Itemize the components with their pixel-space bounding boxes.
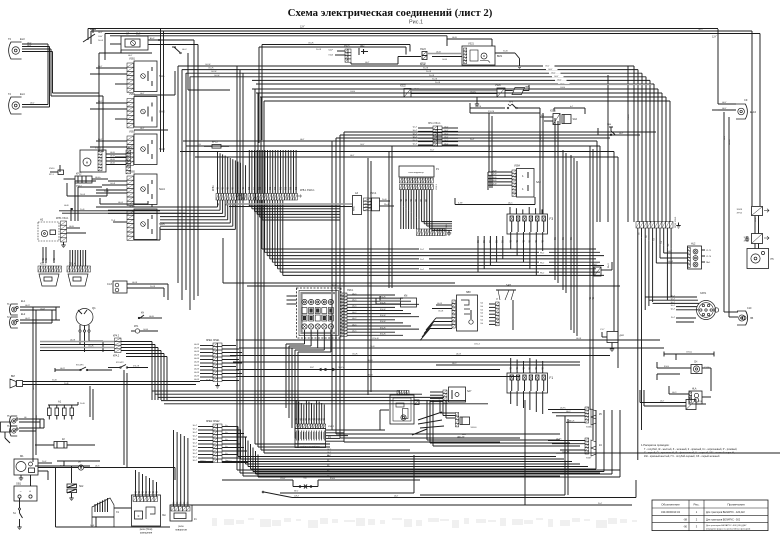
svg-text:Чб-Ж: Чб-Ж <box>194 358 199 360</box>
relay VS21 BM1 <box>462 43 503 66</box>
svg-text:Чб-К: Чб-К <box>95 466 100 468</box>
switch KH1 <box>131 326 158 333</box>
wire XS8.1 leads <box>347 293 419 335</box>
wire diag line <box>262 480 636 498</box>
svg-text:Чб-Ж: Чб-Ж <box>668 261 673 263</box>
svg-text:Чб-В: Чб-В <box>110 152 115 154</box>
wire below EL10 a <box>724 112 726 312</box>
svg-text:ЗРШ1 ХРШ1: ЗРШ1 ХРШ1 <box>206 340 220 342</box>
switch block SA5 <box>127 207 165 241</box>
svg-text:-08: -08 <box>683 517 687 521</box>
relay KP12 <box>64 174 109 189</box>
svg-text:ГЧб-З: ГЧб-З <box>628 114 630 120</box>
wire mid spans <box>230 338 664 362</box>
wire right verticals A <box>555 118 577 336</box>
svg-text:Чб-Ж: Чб-Ж <box>194 362 199 364</box>
svg-text:Чб-Ф: Чб-Ф <box>118 201 123 204</box>
svg-text:Чб: Чб <box>327 460 329 462</box>
wire F1 drops <box>511 391 543 414</box>
svg-text:-90: -90 <box>683 525 687 529</box>
svg-text:SК2: SК2 <box>79 485 84 488</box>
wire SA2 left leads <box>90 101 168 130</box>
wire EL2 leads <box>20 318 60 323</box>
svg-text:ХS5А: ХS5А <box>586 426 592 429</box>
svg-text:Чб-Г: Чб-Г <box>722 108 727 110</box>
svg-text:РИБ1: РИБ1 <box>354 205 356 211</box>
svg-text:Для тракторов БЕЛАРУС - 420,42: Для тракторов БЕЛАРУС - 420,422 <box>706 511 745 514</box>
connector XS29 <box>744 234 769 244</box>
wire below EL10 b <box>729 117 731 317</box>
wire SP3 drops <box>489 108 543 214</box>
svg-text:Зб-Ф: Зб-Ф <box>370 345 375 348</box>
svg-text:Чб-Ж: Чб-Ж <box>194 376 199 378</box>
lamp block HL2 <box>688 243 702 270</box>
svg-text:ВМ1: ВМ1 <box>497 55 503 58</box>
wire SB8 left <box>420 303 452 341</box>
connector XS16.1 row <box>248 190 315 200</box>
svg-text:VSВ5: VSВ5 <box>129 172 136 174</box>
wire EL1 leads <box>20 305 60 311</box>
wire XS10.2 bottom <box>198 461 248 463</box>
svg-text:Чб-В: Чб-В <box>436 52 441 54</box>
svg-text:Об-Ж: Об-Ж <box>88 346 93 348</box>
svg-text:VSВ3: VSВ3 <box>129 132 136 134</box>
wire mid y44 pair <box>259 43 410 144</box>
svg-text:КЖ - красный-желтый, ГЧ - голу: КЖ - красный-желтый, ГЧ - голубой-черный… <box>644 455 720 458</box>
wire bus B <box>178 64 654 86</box>
wire EL3 bundle <box>22 43 103 108</box>
svg-text:комбинация приборов: комбинация приборов <box>300 446 319 448</box>
wire tacho labels <box>401 198 428 202</box>
wire P2 cascade <box>427 399 580 446</box>
component KM <box>376 296 417 308</box>
lamp cluster K5 <box>585 407 602 429</box>
svg-text:Жб-Ж: Жб-Ж <box>380 327 386 329</box>
connector XS23 <box>420 49 432 66</box>
switch SB4 <box>598 124 640 136</box>
wire XS10.1 right <box>222 346 242 381</box>
lamp EL10 <box>736 98 757 119</box>
svg-text:Об-Ж: Об-Ж <box>214 75 219 77</box>
horn H2 <box>38 219 59 242</box>
connector XS10.2 <box>206 421 222 463</box>
wire top bus 2 <box>91 28 752 31</box>
wire M1 leads <box>38 461 78 468</box>
lamp EL3 <box>8 37 25 59</box>
wire F3 tops <box>510 207 542 214</box>
svg-text:SШ: SШ <box>303 478 306 480</box>
connector KRB1 row <box>213 185 247 200</box>
svg-text:тахоспидометр: тахоспидометр <box>408 172 424 174</box>
svg-text:КРБ.1 ХS16.1: КРБ.1 ХS16.1 <box>300 190 315 192</box>
svg-text:Обозначение: Обозначение <box>661 502 680 506</box>
svg-text:КР12: КР12 <box>76 174 82 176</box>
svg-text:ЕРL3: ЕРL3 <box>212 142 218 144</box>
svg-text:Чб-Ж: Чб-Ж <box>70 340 75 342</box>
wire VS21 left <box>432 52 462 62</box>
svg-text:Чб-С: Чб-С <box>352 293 357 295</box>
svg-text:ХS21: ХS21 <box>344 46 350 48</box>
svg-text:VS26: VS26 <box>495 85 501 87</box>
svg-text:Об-Ж: Об-Ж <box>352 354 357 356</box>
wire strip2 staircase <box>223 200 620 286</box>
svg-text:Зб-Ф: Зб-Ф <box>80 208 85 211</box>
svg-text:Жб-Ж: Жб-Ж <box>380 309 386 311</box>
svg-text:Для тракторов БЕЛАРУС - 502: Для тракторов БЕЛАРУС - 502 <box>706 518 741 521</box>
svg-text:СЧб-С: СЧб-С <box>226 461 233 463</box>
wire EL56 risers <box>36 419 44 431</box>
wire big loop bottoms <box>332 430 560 442</box>
relay block VS3 <box>390 391 444 429</box>
svg-text:Чб-В: Чб-В <box>149 316 154 318</box>
bolt V6 <box>78 461 175 481</box>
svg-text:РЬ-З: РЬ-З <box>608 263 610 268</box>
wire strip risers 2 <box>249 150 298 194</box>
svg-text:РЬ-Ф: РЬ-Ф <box>384 203 389 206</box>
svg-text:Зб-Ж: Зб-Ж <box>426 71 431 73</box>
connector KR4.2 <box>113 336 121 358</box>
svg-text:ЗРШ2 ХРШ2: ЗРШ2 ХРШ2 <box>206 421 220 423</box>
resistor bank A1 <box>48 400 86 420</box>
svg-text:Чб-Кч: Чб-Кч <box>95 177 101 179</box>
svg-text:Чб-С: Чб-С <box>352 318 357 320</box>
svg-text:Г - голубой, Ж - желтый, З - з: Г - голубой, Ж - желтый, З - зеленый, К … <box>644 448 737 451</box>
wire VS21 right switch <box>495 51 522 69</box>
wire battery minus <box>13 498 23 530</box>
svg-text:Чб-Кч: Чб-Кч <box>414 89 420 91</box>
svg-text:поворотов: поворотов <box>175 529 187 532</box>
svg-text:С9: С9 <box>744 98 748 102</box>
svg-text:Чб-П: Чб-П <box>25 318 30 320</box>
switch SP1 <box>55 365 112 373</box>
wire long y157 <box>195 155 618 368</box>
wire KP12 link <box>60 165 107 196</box>
wire turn relay risers <box>173 430 189 507</box>
svg-text:Чб-Г: Чб-Г <box>724 135 726 140</box>
svg-text:ХS10: ХS10 <box>49 168 55 170</box>
wire H2 feeders <box>64 181 102 221</box>
wire right drop 1 <box>751 31 753 206</box>
svg-text:SВ8: SВ8 <box>466 291 471 294</box>
wire EL9 left <box>99 44 152 57</box>
plug XP1 <box>92 498 120 527</box>
wire bundle y391 <box>152 391 488 404</box>
wire KSh bottom drops <box>286 330 331 448</box>
svg-text:Ж-Р: Ж-Р <box>310 367 315 369</box>
wire right drop 2 <box>759 34 761 207</box>
svg-text:А5-Р: А5-Р <box>150 37 155 40</box>
lamp EL4 <box>8 92 25 114</box>
connector KRL1 XS4.1 <box>56 218 69 248</box>
wire XS6.1 drops <box>638 228 671 249</box>
connector XS12 col <box>126 146 133 174</box>
svg-text:М1: М1 <box>20 454 24 458</box>
svg-text:Чб: Чб <box>327 470 329 472</box>
svg-text:Чб-С: Чб-С <box>352 312 357 314</box>
svg-text:Чб-С: Чб-С <box>352 300 357 302</box>
svg-text:Об-Ч: Об-Ч <box>350 91 356 93</box>
svg-text:ХS17: ХS17 <box>592 264 598 266</box>
svg-text:ХS1.3: ХS1.3 <box>40 264 47 266</box>
connector XS28 <box>737 207 769 216</box>
wire M2 to right <box>106 152 126 165</box>
svg-text:Чб-Ж: Чб-Ж <box>132 282 137 284</box>
svg-text:ЛБ: ЛБ <box>750 317 754 320</box>
svg-text:Чб-С: Чб-С <box>452 363 457 365</box>
svg-text:Чб-Ф: Чб-Ф <box>492 183 497 186</box>
svg-text:12-Г: 12-Г <box>712 36 717 39</box>
wire to EL10 <box>712 29 736 110</box>
connector XS22 <box>400 86 497 98</box>
connector XS6.1 row <box>636 216 681 228</box>
fuse XS10 <box>49 168 64 176</box>
wire F1 tops <box>511 358 545 373</box>
lamp block HL4 <box>669 386 711 404</box>
wire nested tops <box>243 145 380 147</box>
svg-text:НL2: НL2 <box>691 243 696 246</box>
svg-text:ХS3.6: ХS3.6 <box>471 427 478 429</box>
svg-text:Чб-Рч: Чб-Рч <box>556 439 562 441</box>
svg-text:КР4.2: КР4.2 <box>113 336 120 338</box>
svg-text:Чб-Р: Чб-Р <box>329 50 334 52</box>
connector XS1.3 row A <box>38 264 61 273</box>
svg-text:Зб-В: Зб-В <box>368 360 373 362</box>
svg-text:К: К <box>138 514 140 518</box>
svg-text:СЛб-Г: СЛб-Г <box>280 478 287 480</box>
svg-text:Чб-В: Чб-В <box>452 37 457 39</box>
connector C1.8 <box>107 281 168 300</box>
lamp EL5 <box>7 416 44 426</box>
svg-text:Чб-Г: Чб-Г <box>722 102 727 104</box>
component DM2 <box>600 329 625 352</box>
svg-text:ХР23: ХР23 <box>420 64 426 66</box>
component SK2 <box>35 461 100 501</box>
svg-text:КРБ1: КРБ1 <box>213 185 215 191</box>
buzzer CH <box>657 362 711 392</box>
wire strip risers 1 <box>217 152 245 194</box>
lamp cluster K4 <box>585 438 602 460</box>
wire ground long <box>38 468 170 528</box>
switch block SA2 <box>127 94 165 128</box>
svg-text:Чб-Ф: Чб-Ф <box>492 169 497 172</box>
svg-text:SВ2: SВ2 <box>360 46 365 48</box>
svg-text:Чб-Г: Чб-Г <box>98 32 103 34</box>
wire K4 leads <box>548 439 585 454</box>
svg-text:Чб-В: Чб-В <box>110 156 115 158</box>
fuse bank F3 <box>507 214 553 234</box>
connector XS3.3 row <box>417 224 452 236</box>
wire big loop tops <box>332 132 656 141</box>
svg-text:2Л-СБ: 2Л-СБ <box>488 111 495 113</box>
svg-text:ХS22: ХS22 <box>400 86 406 88</box>
svg-text:GВ1: GВ1 <box>16 483 22 486</box>
wire SSh line <box>222 478 420 489</box>
connector P1 pins <box>400 178 439 190</box>
wire bottom bundle <box>238 410 620 477</box>
wire strip drops 1 staircase <box>108 200 236 229</box>
svg-text:Чб-Ж: Чб-Ж <box>729 140 731 145</box>
svg-text:Чб-В: Чб-В <box>110 163 115 165</box>
svg-text:Чб-Ж: Чб-Ж <box>576 338 581 340</box>
wire KR42 drops <box>152 342 167 401</box>
wire long y151 <box>180 150 614 332</box>
wire SA3 left leads <box>90 139 127 157</box>
svg-text:4-ЗФ: 4-ЗФ <box>458 202 463 205</box>
wire big loop left risers <box>332 132 344 442</box>
switch block SA1 <box>127 59 165 93</box>
box K3 <box>1 422 11 443</box>
svg-text:SА6: SА6 <box>573 118 578 121</box>
svg-text:Чб-Г: Чб-Г <box>30 103 35 105</box>
svg-text:Сч: Сч <box>225 432 227 434</box>
connector XS6 SA7 <box>430 387 472 404</box>
svg-text:КШ: КШ <box>333 284 338 288</box>
wire SA5 top lines <box>59 208 186 213</box>
svg-text:Чб: Чб <box>327 475 329 477</box>
wire Q1 drops <box>80 332 103 352</box>
svg-text:СН: СН <box>694 362 698 364</box>
svg-text:Чб-Рч: Чб-Рч <box>560 408 566 410</box>
wire EL4 pair <box>22 103 50 108</box>
wire SA9 left leads <box>488 169 512 190</box>
svg-text:F1: F1 <box>549 376 553 380</box>
svg-text:С1.8: С1.8 <box>107 284 113 286</box>
wire right verticals B <box>590 146 595 440</box>
svg-text:Чб-В: Чб-В <box>110 159 115 161</box>
svg-text:СЛб-З: СЛб-З <box>474 344 481 346</box>
svg-text:ХS5Т: ХS5Т <box>586 458 592 460</box>
svg-text:Зб-Ж: Зб-Ж <box>432 78 437 80</box>
svg-text:Q1: Q1 <box>92 306 96 310</box>
svg-text:12-Г: 12-Г <box>300 26 305 29</box>
svg-text:КЛ-SР2: КЛ-SР2 <box>116 362 124 364</box>
svg-text:Чб-В: Чб-В <box>69 226 74 228</box>
wire light relay risers <box>135 470 158 497</box>
wire left verticals <box>33 307 127 468</box>
svg-text:СЛб-Ч: СЛб-Ч <box>686 352 693 354</box>
svg-text:Чб-Ж: Чб-Ж <box>194 369 199 371</box>
svg-text:Чб-Ж: Чб-Ж <box>194 379 199 381</box>
svg-text:Чб-С: Чб-С <box>182 49 187 51</box>
svg-text:Зб-Ф: Зб-Ф <box>80 193 85 196</box>
svg-text:Зб-Ф: Зб-Ф <box>382 198 387 201</box>
wire SA9 bottom <box>455 197 535 205</box>
svg-text:Зб-Ж: Зб-Ж <box>150 286 155 288</box>
switch block SA3 <box>127 132 165 166</box>
wire long pair y146 <box>186 144 600 222</box>
block P1 tacho <box>399 166 440 177</box>
switch block SB8 <box>452 291 478 331</box>
connector XA2 <box>640 390 706 410</box>
svg-text:ХS28: ХS28 <box>737 209 743 211</box>
wire XS10.2 left <box>193 425 213 462</box>
lamp EL2 <box>7 313 26 328</box>
svg-text:ЧАб-Ж: ЧАб-Ж <box>568 420 574 423</box>
svg-text:КМ: КМ <box>404 296 407 298</box>
wire gray trunk <box>226 200 352 207</box>
wire HL2 right labels <box>702 250 712 264</box>
socket XAP1 <box>697 292 719 320</box>
svg-text:Для тракторов БЕЛАРУС -502,(СЕ: Для тракторов БЕЛАРУС -502,(СЕ),ДЕУ <box>706 524 747 527</box>
svg-text:Жб-Ж: Жб-Ж <box>380 321 386 323</box>
wire EL riser <box>52 307 60 323</box>
svg-text:Об-Ф: Об-Ф <box>110 182 115 185</box>
block turn relay <box>170 505 197 532</box>
svg-text:Жб-Ч: Жб-Ч <box>330 478 336 480</box>
svg-text:Чб-С: Чб-С <box>352 306 357 308</box>
svg-text:1б-В: 1б-В <box>64 383 69 385</box>
svg-text:Зб-В: Зб-В <box>52 380 57 382</box>
svg-text:А1: А1 <box>58 400 62 404</box>
wire top bus 4 <box>110 35 447 37</box>
svg-text:Чб-С: Чб-С <box>508 203 513 205</box>
svg-text:С1.76: С1.76 <box>706 256 711 258</box>
svg-text:Рис.1: Рис.1 <box>409 20 423 26</box>
svg-text:(передние фары на кронштейнах: (передние фары на кронштейнах фонарей) <box>706 527 750 530</box>
wire XPL1 right <box>442 127 458 146</box>
scan ghost band <box>212 518 637 528</box>
svg-text:Чб: Чб <box>327 455 329 457</box>
svg-text:VSВ4: VSВ4 <box>514 166 521 168</box>
svg-text:СЧб-ЗФ: СЧб-ЗФ <box>562 450 570 453</box>
switch SAN <box>481 284 516 330</box>
svg-text:EL4: EL4 <box>20 92 25 96</box>
svg-text:Об-Ч: Об-Ч <box>560 87 566 89</box>
svg-text:М: М <box>483 55 485 58</box>
connector XS10.1 <box>206 340 222 388</box>
connector XS1.4 row B <box>67 264 90 273</box>
wire K5 leads <box>548 408 585 423</box>
svg-text:ХРL1 ХS1.1: ХРL1 ХS1.1 <box>428 123 441 125</box>
wire mid risers x368 <box>368 158 371 395</box>
svg-text:Зб-Ф: Зб-Ф <box>104 190 109 193</box>
wire battery plus <box>30 475 32 486</box>
svg-text:Чб-Г: Чб-Г <box>698 28 704 31</box>
table of designations <box>652 500 768 531</box>
svg-text:SАН: SАН <box>506 284 511 287</box>
relay XS3.6 <box>440 400 477 439</box>
svg-text:КР-1: КР-1 <box>49 174 54 176</box>
svg-text:EL3: EL3 <box>20 37 25 41</box>
svg-text:Об-Ж: Об-Ж <box>308 43 313 45</box>
svg-text:SА4: SА4 <box>159 187 165 191</box>
svg-text:Чб-Ф: Чб-Ф <box>492 173 497 176</box>
svg-text:+: + <box>29 490 31 494</box>
svg-text:Чб-Ф: Чб-Ф <box>456 353 461 356</box>
svg-text:Чб-Ж: Чб-Ж <box>194 365 199 367</box>
svg-text:ХS8.1: ХS8.1 <box>347 290 354 292</box>
svg-text:ЛА-1: ЛА-1 <box>706 261 710 264</box>
wire VS3 diag <box>380 410 427 435</box>
svg-text:Об-В: Об-В <box>143 329 148 331</box>
svg-text:Чб-Ф: Чб-Ф <box>754 217 757 222</box>
svg-text:Сч: Сч <box>225 453 227 455</box>
svg-text:Зб-В: Зб-В <box>368 375 373 377</box>
svg-text:F3: F3 <box>549 217 553 221</box>
svg-text:Об-Ж: Об-Ж <box>205 64 210 66</box>
svg-text:Чб-В: Чб-В <box>64 205 69 207</box>
svg-text:Сч: Сч <box>225 439 227 441</box>
svg-text:Рис.: Рис. <box>693 502 699 506</box>
plug body A <box>39 274 59 286</box>
wire SA1 left leads <box>90 66 175 95</box>
svg-text:Зб-Ф: Зб-Ф <box>98 39 103 42</box>
svg-text:SА7: SА7 <box>467 390 472 393</box>
resistor EPL3 <box>198 142 229 149</box>
svg-text:Чб-П: Чб-П <box>25 305 30 307</box>
svg-text:ХS25: ХS25 <box>550 111 556 113</box>
svg-text:НLА: НLА <box>692 388 697 391</box>
